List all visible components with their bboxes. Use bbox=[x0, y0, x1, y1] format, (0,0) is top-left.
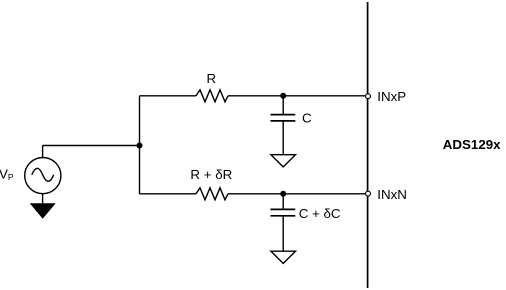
svg-text:ADS129x: ADS129x bbox=[443, 137, 501, 152]
svg-text:INxN: INxN bbox=[377, 187, 407, 202]
svg-text:C + δC: C + δC bbox=[299, 206, 341, 221]
svg-text:INxP: INxP bbox=[377, 89, 406, 104]
svg-text:R + δR: R + δR bbox=[190, 167, 232, 182]
svg-text:R: R bbox=[207, 71, 217, 86]
svg-text:C: C bbox=[302, 111, 312, 126]
